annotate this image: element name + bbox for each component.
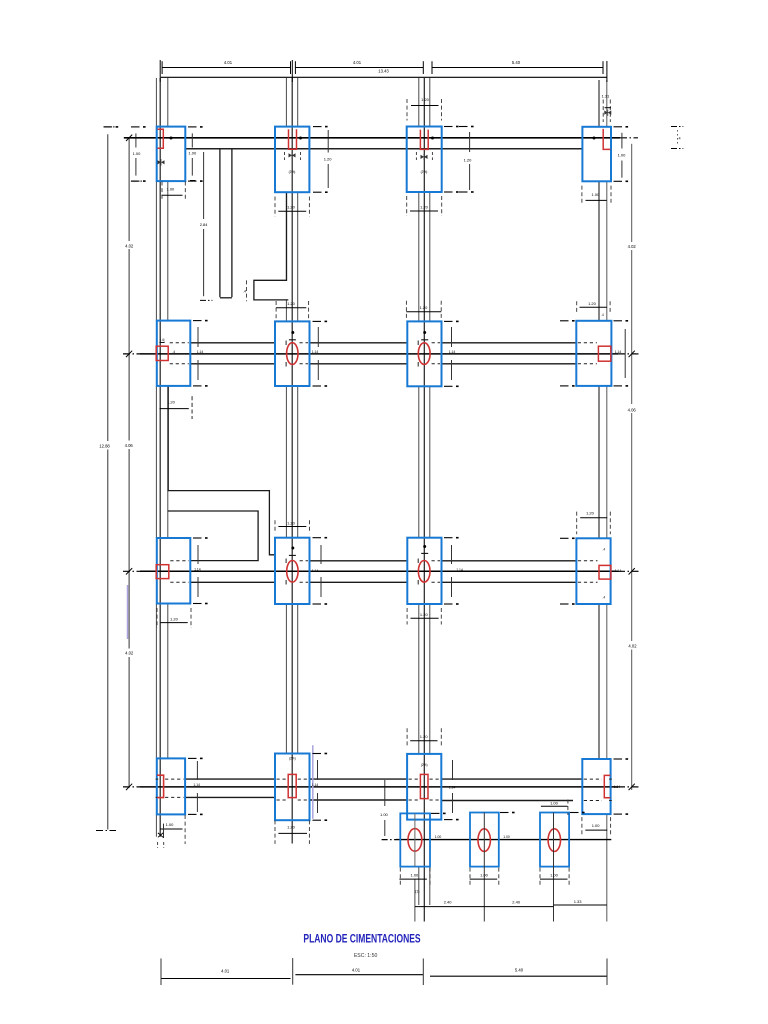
node dot A3	[431, 137, 434, 140]
hidden stub left of ellipse C2	[285, 559, 287, 564]
corner dash A2 right top	[313, 126, 322, 128]
svg-text:1.00: 1.00	[592, 823, 601, 828]
svg-text:1.14: 1.14	[615, 569, 622, 573]
corner dash D2 right top	[313, 753, 322, 755]
svg-text:4.02: 4.02	[125, 243, 134, 248]
node dot A4	[593, 137, 596, 140]
node dot B3	[423, 331, 426, 334]
svg-text:1.14: 1.14	[312, 783, 319, 787]
dim right of footing A3 (1.20)	[469, 132, 471, 152]
corner dash D1 right top	[188, 757, 197, 759]
column mark B1 (box)	[156, 346, 168, 360]
svg-text:1.20: 1.20	[287, 825, 296, 830]
hidden beam dashes in footing C1	[170, 560, 189, 562]
row axis E centerline (footing strip)	[382, 839, 396, 841]
hidden beam dashes in footing D1	[156, 778, 159, 780]
corner dash B1 right bottom	[193, 385, 202, 387]
svg-text:4.06: 4.06	[125, 443, 134, 448]
svg-text:1.00: 1.00	[188, 151, 197, 156]
column mark A1 (bracket)	[158, 129, 164, 148]
bottom dim segment 1 (4.01)	[161, 978, 291, 980]
corner dash B4 right top	[614, 320, 623, 322]
column mark C1 (box)	[156, 565, 169, 579]
mark above ellipse C3	[421, 552, 428, 554]
svg-text:1.00: 1.00	[618, 153, 627, 158]
corner dash B3 right bottom	[444, 385, 453, 387]
svg-text:1.00: 1.00	[380, 812, 389, 817]
svg-text:1.14: 1.14	[456, 568, 463, 572]
bottom dim segment 2 (4.01)	[295, 974, 423, 976]
section marker A3	[421, 155, 428, 159]
svg-text:1.20: 1.20	[420, 734, 429, 739]
svg-text:.4: .4	[601, 313, 604, 317]
corner dash A1 left top	[131, 126, 140, 128]
row axis B centerline	[123, 353, 140, 355]
svg-text:1.31: 1.31	[602, 94, 611, 99]
column mark D2 (box)	[288, 774, 296, 797]
corner dash C1 right bottom	[193, 603, 202, 605]
dim right of footing A1 (1.00)	[191, 133, 193, 147]
svg-text:12.88: 12.88	[99, 443, 110, 448]
svg-text:1.20: 1.20	[167, 399, 176, 404]
corner dash A1 right bottom	[188, 180, 197, 182]
row D beam top edge	[185, 778, 275, 780]
hidden mark below red A3	[415, 152, 417, 160]
stair outline middle inner	[168, 511, 258, 561]
top dim segment 3 (5.40)	[432, 67, 603, 69]
svg-text:1.20: 1.20	[588, 301, 597, 306]
corner dash C3 right top	[444, 537, 453, 539]
stair dim 2.84	[203, 152, 205, 219]
svg-text:1.33: 1.33	[574, 899, 583, 904]
svg-text:1.14: 1.14	[312, 350, 319, 354]
dim line right of footing B1	[197, 327, 199, 347]
svg-text:1.14: 1.14	[615, 350, 622, 354]
top dim overall (13.43)	[161, 76, 607, 78]
svg-text:1.14: 1.14	[449, 785, 456, 789]
hidden beam dashes in footing B1	[170, 342, 189, 344]
column strip axis 2 beam edges	[285, 78, 287, 127]
corner dash C2 right top	[313, 537, 322, 539]
footing E3 centerline	[553, 813, 555, 922]
footing A1	[157, 127, 186, 182]
mark above ellipse C2	[289, 554, 296, 556]
corner dash B1 right top	[193, 320, 202, 322]
svg-text:1.14: 1.14	[193, 783, 200, 787]
column strip axis 2 centerline	[291, 78, 293, 844]
bottom strip dim segment 3 (1.33)	[554, 904, 607, 906]
column mark D3 (box)	[420, 774, 428, 798]
corner dash B4 left bottom	[560, 385, 569, 387]
corner dash B2 right bottom	[313, 385, 322, 387]
footing D4	[582, 759, 610, 814]
svg-text:1.20: 1.20	[287, 205, 296, 210]
corner dash B4 left top	[560, 320, 569, 322]
top dim segment 2 (4.01)	[295, 67, 423, 69]
section marker A1	[158, 160, 165, 164]
svg-text:1.20: 1.20	[420, 204, 429, 209]
footing B3	[407, 321, 441, 386]
dim line right of footing D1	[196, 761, 198, 780]
mark above ellipse B3	[421, 339, 428, 341]
left sub dim (1.00)	[135, 133, 137, 147]
svg-text:1.20: 1.20	[287, 301, 296, 306]
row C beam bottom edge	[190, 581, 275, 583]
corner dash A3 right bottom	[444, 191, 453, 193]
corner dash A3 far right bottom	[459, 191, 468, 193]
svg-text:4.01: 4.01	[353, 60, 362, 65]
svg-text:1.00: 1.00	[503, 835, 510, 839]
corner dash D3 right bottom	[444, 819, 453, 821]
svg-text:1.00: 1.00	[435, 835, 442, 839]
hidden beam dashes in footing B2	[300, 342, 309, 344]
svg-text:5.40: 5.40	[515, 967, 524, 972]
corner dash A1 left bottom	[131, 180, 140, 182]
svg-text:1.00: 1.00	[592, 192, 601, 197]
hidden beam dashes in footing C4	[578, 560, 598, 562]
svg-text:4.02: 4.02	[628, 244, 637, 249]
column mark D4 (bracket)	[604, 775, 610, 797]
node dot A1	[170, 137, 173, 140]
lavender line left margin	[127, 585, 129, 639]
footing D2	[275, 754, 310, 821]
svg-text:4.02: 4.02	[628, 643, 637, 648]
dim right of footing A2 (1.20)	[327, 130, 329, 153]
svg-text:1.20: 1.20	[287, 520, 296, 525]
svg-text:1.00: 1.00	[411, 872, 420, 877]
column mark E2 (ellipse)	[478, 829, 490, 852]
column strip axis 1 centerline	[159, 78, 161, 837]
row axis C centerline	[123, 570, 140, 572]
row B beam bottom edge	[190, 363, 275, 365]
column mark C2 (ellipse)	[287, 561, 298, 583]
svg-text:2.40: 2.40	[444, 899, 453, 904]
footing A3	[407, 127, 442, 193]
footing D1	[157, 758, 185, 814]
right isolated dim (.4)	[671, 126, 683, 128]
footing C4	[576, 538, 610, 604]
svg-text:1.00: 1.00	[133, 151, 142, 156]
svg-text:1.14: 1.14	[194, 568, 201, 572]
bottom strip dim segment 1 (2.40)	[415, 906, 484, 908]
svg-text:4.01: 4.01	[224, 60, 233, 65]
svg-text:.4: .4	[602, 595, 605, 599]
hidden beam dashes in footing B4	[578, 342, 597, 344]
bottom strip dim segment 2 (2.40)	[484, 906, 553, 908]
footing C3	[407, 538, 441, 604]
stair step outline upper	[254, 192, 288, 300]
column mark C3 (ellipse)	[418, 561, 430, 583]
left storey dim line (4.02/4.06/4.02)	[128, 138, 130, 241]
hidden beam dashes in footing C3	[432, 560, 441, 562]
svg-text:(2%): (2%)	[421, 170, 428, 174]
hidden beam dashes in footing D4	[584, 778, 602, 780]
svg-text:.4: .4	[243, 289, 246, 293]
top dim segment 1 (4.01)	[162, 67, 290, 69]
footing B1	[157, 321, 191, 386]
row A beam bottom edge	[185, 148, 582, 150]
section marker A4 top	[604, 111, 611, 115]
hidden beam dashes in footing D2	[277, 778, 287, 780]
corner dash D4 right top	[614, 758, 623, 760]
svg-text:.4: .4	[602, 548, 605, 552]
column strip axis 1 beam edges	[155, 78, 157, 127]
svg-text:1.20: 1.20	[586, 510, 595, 515]
dim line right of footing C1	[197, 545, 199, 564]
hidden mark below red A2	[284, 152, 286, 160]
svg-text:1.14: 1.14	[449, 350, 456, 354]
svg-text:1.00: 1.00	[550, 800, 559, 805]
footing B4	[576, 321, 611, 386]
corner dash D1 right bottom	[188, 813, 197, 815]
dim right of footing A4 (1.00)	[621, 133, 623, 149]
corner dash A2 right bottom	[313, 191, 322, 193]
right storey dim line (4.02/4.06/4.02)	[631, 144, 633, 242]
bottom dim segment 3 (5.40)	[430, 975, 607, 977]
stair dim .4 (dashed)	[246, 280, 248, 301]
svg-text:4.06: 4.06	[628, 407, 637, 412]
dim line right of footing C2	[320, 545, 322, 564]
svg-text:.4: .4	[172, 350, 175, 354]
corner dash D4 right bottom	[614, 813, 623, 815]
column mark D1 (bracket)	[157, 775, 164, 797]
footing E2	[470, 813, 499, 867]
row D beam bottom edge	[185, 796, 275, 798]
footing C2	[275, 538, 310, 604]
column mark A2 (open-top box)	[289, 129, 297, 149]
column mark B4 (box)	[598, 346, 610, 361]
svg-text:1.20: 1.20	[464, 158, 473, 163]
svg-text:1.20: 1.20	[170, 617, 179, 622]
svg-text:1.00: 1.00	[550, 872, 559, 877]
dim left of strip (1.00)	[384, 780, 386, 806]
svg-text:4.01: 4.01	[352, 967, 361, 972]
svg-text:PLANO DE CIMENTACIONES: PLANO DE CIMENTACIONES	[303, 933, 420, 945]
node dot C2	[291, 547, 294, 550]
column strip axis 4 beam edges	[598, 80, 600, 127]
column mark B2 (ellipse)	[287, 343, 298, 365]
column mark A3 (open-top box)	[420, 130, 428, 150]
corner dash A3 right top	[444, 126, 453, 128]
row C beam top edge	[310, 560, 408, 562]
dim line right of footing B3	[451, 327, 453, 347]
stair wall upper left	[219, 149, 221, 297]
row B beam top edge	[190, 342, 275, 344]
corner dash A4 right bottom	[614, 180, 623, 182]
node dot C3	[423, 545, 426, 548]
hidden beam dashes in footing D3	[409, 778, 419, 780]
footing A4	[582, 127, 611, 182]
footing E3	[540, 813, 569, 867]
corner dash C1 right top	[193, 537, 202, 539]
dim line right of footing D3	[452, 760, 454, 780]
corner dash A4 right top	[614, 126, 623, 128]
node dot B2	[291, 331, 294, 334]
svg-text:1.14: 1.14	[312, 569, 319, 573]
corner dash E3 right top	[570, 812, 579, 814]
svg-text:1.20: 1.20	[420, 305, 429, 310]
svg-text:2.40: 2.40	[512, 899, 521, 904]
footing B2	[275, 321, 310, 386]
corner dash margin far left top	[104, 126, 113, 128]
dim line right of footing D2	[317, 760, 319, 780]
hidden beam dashes in footing C2	[300, 560, 308, 562]
corner dash C4 left top	[560, 537, 569, 539]
left overall dim line (12.88)	[107, 134, 109, 441]
corner dash D2 right bottom	[313, 819, 322, 821]
svg-text:1.14: 1.14	[197, 350, 204, 354]
row axis A top line	[124, 137, 620, 139]
row axis D centerline	[123, 786, 140, 788]
column mark A4 (angle)	[603, 129, 610, 150]
column mark B3 (ellipse)	[418, 343, 430, 365]
footing E2 centerline	[483, 813, 485, 922]
dim right of footing B4 (1.00)	[624, 329, 626, 378]
corner dash B3 right top	[444, 320, 453, 322]
svg-text:1.20: 1.20	[324, 157, 333, 162]
svg-text:5.40: 5.40	[512, 60, 521, 65]
svg-text:1.00: 1.00	[480, 872, 489, 877]
corner dash C4 left bottom	[560, 603, 569, 605]
corner dash C2 right bottom	[313, 603, 322, 605]
corner dash A3 far right top	[459, 126, 468, 128]
corner dash B2 right top	[313, 320, 322, 322]
footing E1	[400, 813, 430, 866]
mark above ellipse B2	[289, 339, 296, 341]
svg-text:1.20: 1.20	[421, 97, 430, 102]
hidden beam dashes in footing B3	[432, 342, 440, 344]
footing C1	[157, 538, 191, 604]
corner dash A1 right top	[188, 126, 197, 128]
hidden stub left of ellipse B3	[417, 341, 419, 346]
footing A2	[275, 127, 309, 193]
hidden stub left of ellipse C3	[417, 559, 419, 564]
svg-text:1.00: 1.00	[166, 822, 175, 827]
section marker A2	[289, 153, 296, 157]
svg-text:1.20: 1.20	[420, 612, 429, 617]
svg-text:1.14: 1.14	[614, 785, 621, 789]
lavender line right of footing D2	[312, 745, 314, 819]
svg-text:13.43: 13.43	[378, 69, 389, 74]
column mark E1 (ellipse)	[408, 829, 422, 852]
corner dash B4 right bottom	[614, 385, 623, 387]
corner dash E1 right top	[431, 812, 440, 814]
svg-text:(1): (1)	[415, 889, 419, 893]
stair outline middle outer	[168, 386, 275, 555]
footing D3	[407, 754, 441, 820]
column mark C4 (box)	[599, 565, 611, 579]
svg-text:1.00: 1.00	[167, 186, 176, 191]
svg-text:(2%): (2%)	[289, 757, 296, 761]
node dot A2	[299, 137, 302, 140]
corner dash E2 right top	[500, 812, 509, 814]
row A axis left dash	[124, 137, 142, 139]
svg-text:(2%): (2%)	[289, 170, 296, 174]
column strip axis 3 centerline	[423, 78, 425, 922]
svg-text:4.02: 4.02	[125, 651, 134, 656]
svg-text:ESC: 1:50: ESC: 1:50	[354, 953, 378, 959]
footing E1 centerline + extension	[414, 813, 416, 866]
svg-text:2.84: 2.84	[200, 222, 209, 227]
column mark E3 (ellipse)	[548, 829, 560, 852]
corner dash C3 right bottom	[444, 603, 453, 605]
svg-text:4.01: 4.01	[221, 968, 230, 973]
column strip axis 3 beam edges	[418, 78, 420, 127]
hidden stub left of ellipse B2	[285, 341, 287, 346]
dim line right of footing B2	[317, 327, 319, 347]
svg-text:|.4|: |.4|	[160, 338, 164, 342]
svg-text:(2%): (2%)	[421, 763, 428, 767]
dim line right of footing C3	[451, 545, 453, 564]
